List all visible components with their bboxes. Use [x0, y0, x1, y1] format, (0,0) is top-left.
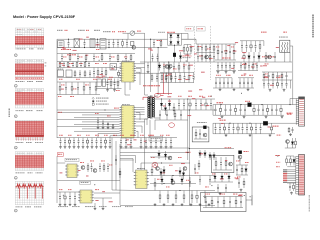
relay box label	[197, 121, 198, 124]
boxed part near caps	[149, 136, 163, 141]
wires into sub box	[188, 153, 190, 206]
sec diode D652	[165, 103, 167, 108]
bank1 top rail	[213, 104, 248, 106]
sec caps x241-257	[240, 62, 242, 66]
T601 windings	[282, 42, 283, 52]
line filter LF601	[74, 39, 80, 48]
resistor R607	[187, 45, 189, 48]
capacitor C602	[84, 39, 86, 43]
long wire a	[120, 147, 189, 149]
mid verticals x107-119	[107, 79, 109, 83]
sec diode D653	[169, 99, 171, 103]
label SWITCHING TRANS	[262, 56, 264, 57]
cluster x240 parts	[236, 165, 238, 169]
label F601	[261, 32, 263, 33]
bc res r1	[154, 178, 156, 182]
IC2 label	[122, 103, 124, 106]
table 3 caption	[16, 109, 17, 112]
AC inlet CN601	[58, 41, 65, 48]
table 2 caption	[16, 80, 18, 83]
sec rail y80 right	[262, 79, 292, 81]
bank rail left ends	[212, 105, 214, 116]
sec gnd rail	[213, 87, 254, 89]
bc transistor Q653	[156, 167, 160, 171]
capacitor C610	[147, 62, 149, 66]
connector CN652 pin stubs	[296, 155, 299, 157]
circled note 7	[14, 209, 17, 212]
sec rail y78	[215, 77, 232, 79]
lower right box	[211, 155, 234, 172]
label group1	[222, 58, 224, 59]
svg-text:6: 6	[15, 178, 16, 180]
waveform trace	[16, 184, 44, 187]
bottom row labels right	[120, 134, 122, 137]
line filter LF603	[100, 39, 106, 49]
bc transistor Q655	[183, 167, 187, 171]
gnd under sec group1	[225, 71, 227, 72]
sec caps group2	[215, 78, 217, 82]
bank gnd symbols	[221, 115, 223, 116]
sec diode D651	[161, 99, 163, 103]
capacitor C604	[108, 39, 110, 43]
mid components row3	[59, 82, 61, 86]
lower right box parts	[215, 157, 217, 162]
rail R1	[240, 40, 264, 42]
IC4 label box	[80, 181, 91, 184]
capacitor C601	[68, 39, 70, 43]
sec caps group1	[217, 62, 219, 66]
sec rail y99	[155, 98, 215, 100]
below CN651 parts	[288, 127, 290, 128]
IC U652 (regulator)	[80, 190, 92, 203]
labels group2	[216, 74, 217, 77]
rail y82 center	[160, 82, 194, 84]
dashed separator 1	[194, 26, 196, 80]
bc rail y175	[150, 175, 215, 177]
rail from bridge right	[182, 38, 197, 40]
sec mid caps	[178, 99, 180, 104]
rail y72 secondary right	[262, 71, 292, 73]
label Z601	[137, 31, 139, 32]
below box parts	[214, 173, 216, 177]
table 2 side marks	[45, 62, 47, 65]
bank1 out wire	[290, 104, 296, 106]
photocoupler PC601	[110, 64, 117, 71]
sec rail y120	[155, 119, 188, 121]
bottom cap row rail	[57, 137, 177, 139]
circled note 6	[14, 176, 17, 179]
measurement table 3	[15, 89, 44, 109]
transformer bottom wires	[144, 119, 146, 138]
mid components row2	[93, 68, 95, 72]
right verticals comps	[115, 155, 117, 159]
varistor Z601	[130, 31, 135, 36]
label near Q601	[157, 40, 159, 41]
LINE FILTER label	[61, 49, 63, 50]
extra bottom row labels	[113, 134, 115, 137]
cluster C parts	[286, 156, 288, 159]
bottom cap row left	[60, 138, 62, 141]
main vertical bus 1	[187, 99, 189, 160]
mid gnds	[107, 89, 109, 90]
wire w1	[136, 67, 145, 69]
table header marks t3	[17, 89, 18, 92]
wire w3	[136, 112, 140, 114]
connector CN652	[299, 155, 305, 196]
boxed label P802	[196, 27, 205, 31]
IC2 left caps	[97, 117, 99, 121]
bc diode stack 1	[163, 166, 165, 170]
svg-text:4: 4	[15, 116, 16, 118]
bridge rectifier D604	[177, 41, 180, 44]
scattered component value labels	[79, 38, 83, 41]
bridge output wire	[174, 45, 176, 53]
labels lower right	[212, 173, 214, 176]
cap left of bridge	[153, 39, 155, 43]
red wire horizontal	[157, 93, 172, 95]
transformer T601 core	[149, 96, 151, 119]
rail y148	[210, 148, 234, 150]
label CN651	[287, 114, 289, 115]
circled note 3	[14, 84, 17, 87]
transistor Q604	[205, 55, 209, 59]
sub box parts	[205, 197, 207, 202]
bc res extra	[151, 166, 153, 169]
table 4 tick comb	[15, 137, 17, 140]
diode D605	[159, 62, 161, 65]
labels mesh3	[198, 45, 200, 48]
IC5 label	[137, 167, 139, 170]
svg-text:7: 7	[15, 211, 16, 213]
cluster rail	[184, 44, 191, 46]
capacitor C606	[117, 39, 119, 43]
rail y52 right-of-bridge	[196, 52, 215, 54]
capacitor C603	[97, 39, 99, 43]
IC2 bottom wires	[98, 133, 120, 135]
right margin label SM3080 Service	[312, 15, 313, 17]
measurement table 1	[15, 28, 44, 48]
bead y152	[239, 151, 242, 154]
LINE FILTER label 2	[67, 54, 69, 55]
capacitor C605	[113, 39, 115, 43]
labels sec mid2	[242, 63, 243, 66]
left boxes	[58, 70, 64, 77]
label cluster C	[275, 155, 277, 156]
left switch cluster	[217, 44, 219, 50]
net label wires	[287, 169, 296, 171]
relay box bead	[203, 126, 206, 129]
sec rail y110	[162, 109, 216, 111]
measurement table 2	[15, 59, 44, 76]
measurement table 5	[15, 152, 44, 171]
labels IC2 area	[95, 112, 96, 115]
labels cluster x240	[236, 160, 237, 163]
rail y148 fill gap	[189, 148, 210, 150]
bc gnd row	[154, 203, 156, 204]
red wire trace 2	[161, 94, 164, 96]
sec gnd syms	[219, 88, 221, 89]
row2 components	[61, 54, 63, 57]
transistor Q603	[165, 65, 169, 69]
bank1 label right	[287, 113, 289, 114]
label D601-604	[167, 32, 169, 33]
mid rail y67	[57, 67, 121, 69]
cluster B transistor Q652	[286, 140, 290, 144]
bc wire y157	[150, 156, 172, 158]
wire w5	[136, 130, 138, 132]
bc transistor Q654	[168, 156, 172, 160]
relay box	[192, 127, 209, 142]
vertical wire v168	[168, 62, 170, 95]
wire T601 down	[289, 52, 291, 62]
vertical wire x144 low	[144, 138, 146, 170]
sec rail y70 mid	[238, 70, 258, 72]
red label SWITCHING REGULATOR	[143, 85, 145, 86]
bank2 top rail	[213, 122, 263, 124]
bc label extra	[157, 178, 159, 181]
bank2 label left	[220, 120, 222, 121]
bridge wiring	[168, 32, 182, 34]
table1 header red marks	[17, 28, 41, 31]
relay box parts	[195, 129, 197, 132]
diode below bridge	[180, 52, 182, 56]
wire w2	[136, 71, 140, 73]
fuse F601	[131, 42, 134, 46]
bank1 label middle	[245, 101, 247, 102]
sec caps group3	[263, 80, 265, 84]
svg-text:5: 5	[15, 148, 16, 150]
wires left-to-IC5	[120, 155, 136, 157]
bridge rectifier D602	[177, 35, 180, 38]
wire stack to connector	[287, 161, 296, 163]
labels IC4 area	[59, 188, 60, 191]
rail y180	[57, 180, 120, 182]
bc diode D656	[171, 176, 173, 180]
labels right cluster	[243, 63, 245, 66]
table 4 caption	[16, 141, 17, 144]
bottom cap row right	[120, 138, 122, 141]
right cluster a	[243, 52, 245, 56]
rail R3	[215, 61, 292, 63]
transformer label above	[279, 36, 280, 39]
labels IC3 area	[80, 161, 82, 164]
red box label	[57, 153, 63, 156]
connector CN651	[299, 97, 305, 126]
bc bottom rail	[120, 205, 215, 207]
svg-text:2: 2	[15, 55, 16, 57]
labels mid rows	[59, 62, 61, 65]
bank1 capacitors	[215, 105, 217, 110]
table 5 caption	[16, 171, 18, 174]
bank1 gnd rail	[213, 114, 284, 116]
bc diode stack 2	[179, 167, 181, 171]
legend line 3	[92, 103, 94, 105]
bank2 out wire	[280, 122, 296, 124]
bc rail y163	[150, 162, 190, 164]
sec top rail 1	[216, 70, 236, 72]
waveform grid	[15, 181, 44, 204]
label R602	[96, 48, 97, 51]
mid labels 2	[99, 76, 101, 79]
wire bridge top right	[182, 32, 189, 34]
IC1 bottom stubs	[124, 82, 126, 95]
bottom right label Chapter 10	[309, 195, 310, 197]
IC U601 (photocoupler driver)	[122, 62, 135, 82]
line filter LF602	[90, 39, 95, 48]
left bus bottom	[56, 156, 58, 203]
bc cap extra 1	[189, 177, 191, 181]
cluster x240 transistor Q656	[238, 155, 242, 159]
IC1 label	[122, 60, 124, 63]
vertical wire transformer out	[292, 46, 294, 105]
bottom cap row labels	[59, 134, 60, 137]
labels row3	[61, 84, 62, 87]
IC1 right wires	[136, 63, 145, 65]
dashed separator 2	[210, 26, 212, 80]
right cluster b	[268, 55, 272, 59]
boxed label P801	[185, 27, 193, 31]
label T601	[283, 32, 285, 33]
left bus mid	[56, 62, 58, 139]
bridge rectifier D603	[170, 41, 173, 44]
bc junctions	[163, 183, 164, 184]
bc left wires	[120, 152, 140, 154]
bank2 ferrite bead FBL652	[263, 121, 267, 125]
bank2 capacitors	[215, 123, 217, 128]
main transformer T601 box	[280, 40, 290, 52]
IC2 right wires	[136, 106, 145, 108]
labels group3	[264, 76, 266, 79]
resistor R601	[122, 39, 124, 41]
bank1 label left	[217, 102, 219, 103]
IC3 right parts	[81, 166, 85, 170]
bridge rectifier D601	[170, 35, 173, 38]
rail R2	[215, 43, 236, 45]
bottom caption text row	[58, 205, 59, 208]
resistor R606	[183, 45, 185, 48]
svg-text:3: 3	[15, 86, 16, 88]
labels under row2 topleft	[63, 56, 65, 59]
T601 lead wires	[145, 94, 148, 96]
bc labels	[151, 156, 152, 159]
rail y73	[128, 72, 172, 74]
center mesh row B	[163, 62, 165, 67]
net labels left column	[276, 161, 277, 164]
bc rail y183	[150, 183, 196, 185]
labels sec mid	[178, 95, 179, 98]
labels R606-608	[183, 55, 184, 58]
T601 primary winding	[148, 97, 150, 99]
circled note 5	[14, 146, 17, 149]
table 2 red strip	[15, 77, 44, 79]
bottom sub box	[201, 193, 247, 212]
bc res r2	[159, 191, 161, 195]
IC3 label box	[65, 158, 79, 161]
label row y148	[225, 147, 226, 148]
table 1 caption	[16, 47, 17, 50]
left margin label SP-2	[9, 109, 10, 111]
diode row y155	[199, 150, 201, 153]
IC U602 (control IC)	[122, 106, 135, 139]
table header marks t5	[17, 152, 18, 155]
bc diode D657	[181, 176, 183, 180]
red wire trace 1	[143, 96, 154, 98]
bank2 gnd rail	[213, 133, 275, 135]
table header marks t2	[17, 59, 19, 62]
circled note 4	[14, 115, 17, 118]
circled note 2	[14, 54, 17, 57]
IC4 left caps	[59, 192, 61, 197]
label row top-left	[57, 30, 58, 31]
table header marks t1	[17, 28, 19, 31]
IC2 input wires	[57, 112, 120, 114]
rail L3	[57, 53, 135, 55]
bank junction dots	[220, 104, 221, 105]
bc caps	[199, 176, 201, 180]
bc rail y152	[140, 152, 189, 154]
IC U651 (opto)	[67, 164, 77, 178]
junction dots scattered	[211, 185, 212, 186]
below CN652 parts	[289, 183, 291, 186]
labels center mesh	[163, 64, 165, 67]
vertical wire v158	[157, 48, 159, 95]
bc transistor Q657	[171, 181, 175, 185]
cap row left extras	[152, 54, 154, 57]
svg-text:Model : Power Supply CPVS-2150: Model : Power Supply CPVS-2150F	[13, 15, 76, 19]
vertical wire v150	[150, 39, 152, 92]
junction dots row	[68, 39, 69, 40]
primary ground rail	[140, 61, 215, 63]
sec res R651	[173, 103, 175, 107]
capacitor C607	[126, 39, 128, 43]
waveform caption	[16, 205, 17, 208]
red wire vertical	[163, 73, 165, 94]
transistor Q601	[132, 46, 136, 50]
main vertical bus 2	[188, 110, 190, 153]
mid rail y94	[57, 94, 100, 96]
label cluster B	[277, 135, 278, 136]
legend line 1	[92, 97, 94, 99]
secondary right mesh	[263, 72, 265, 74]
measurement table 4	[15, 120, 44, 139]
bc diode D655	[161, 176, 163, 180]
bank2 label right	[273, 126, 274, 127]
wire to CN651 top	[290, 98, 296, 100]
mid rail y88	[96, 88, 122, 90]
wire w4	[136, 121, 145, 123]
vertical wire v144	[144, 33, 146, 95]
mid components row1	[59, 62, 61, 63]
cluster B res	[295, 138, 297, 141]
red ref ellipse A	[154, 93, 160, 97]
rail L2	[57, 47, 168, 49]
long wire b	[112, 189, 150, 192]
mesh right of bridge	[197, 44, 199, 46]
rail 4B	[57, 109, 122, 111]
sub box rail	[203, 196, 243, 198]
cluster B diode	[292, 138, 294, 142]
red ref circle X	[152, 162, 158, 167]
mid rail y77	[57, 77, 122, 79]
resistor R608	[190, 45, 192, 48]
legend line 2	[92, 100, 94, 102]
IC2 right wires lower	[136, 118, 147, 120]
mid rail y82	[57, 81, 120, 83]
rail y72 center	[160, 72, 194, 74]
component under rail y73	[151, 73, 153, 76]
vertical wire x252	[251, 134, 253, 206]
T601 secondary winding	[152, 98, 154, 100]
